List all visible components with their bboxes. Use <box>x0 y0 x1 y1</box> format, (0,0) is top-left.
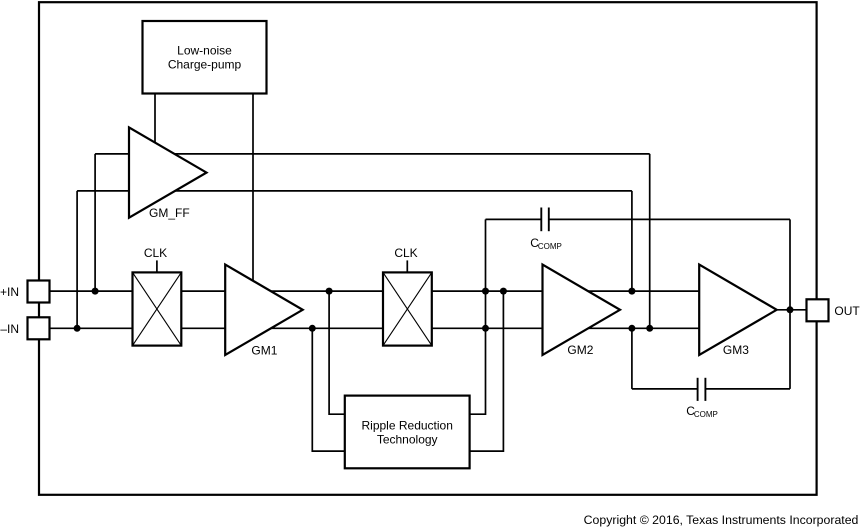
svg-text:+IN: +IN <box>0 285 19 299</box>
svg-text:GM1: GM1 <box>251 343 277 357</box>
svg-text:Ripple Reduction: Ripple Reduction <box>362 418 453 432</box>
chopper 2 box <box>383 272 432 345</box>
svg-text:Copyright © 2016, Texas Instru: Copyright © 2016, Texas Instruments Inco… <box>584 513 859 527</box>
wire: +row tap down into ripple box left upper <box>329 291 345 414</box>
node: chopper2 out + tap (Ccomp leg) <box>482 288 489 295</box>
wire: CLK stub chopper 1 <box>156 260 158 273</box>
svg-text:Low-noise: Low-noise <box>177 43 232 57</box>
svg-text:GM_FF: GM_FF <box>149 206 190 220</box>
wire: output right vertical joining both Ccomp to output node <box>789 219 791 389</box>
wire: +row tap down into ripple box right lower <box>470 291 504 451</box>
node: bottom Ccomp leg on -row <box>628 325 635 332</box>
wire: top Ccomp left leg down through rows into ripple box right upper <box>470 219 486 414</box>
op-amp GM_FF <box>129 127 207 217</box>
block: Ripple Reduction Technology <box>345 396 470 469</box>
node: GM_FF upper drop on -row <box>646 325 653 332</box>
node: -IN junction <box>74 325 81 332</box>
svg-text:–IN: –IN <box>0 322 19 336</box>
op-amp GM1 <box>225 265 303 356</box>
wire: bottom Ccomp line right segment <box>705 388 790 390</box>
wire: charge-pump right drop to GM1 top edge <box>252 93 254 290</box>
svg-text:CLK: CLK <box>144 246 167 260</box>
node: GM1 out + tap <box>326 288 333 295</box>
node: +IN junction <box>92 288 99 295</box>
svg-text:Charge-pump: Charge-pump <box>168 57 242 71</box>
node: ripple right lower tap <box>500 288 507 295</box>
svg-text:COMP: COMP <box>538 242 562 251</box>
wire: bottom Ccomp left leg from -row <box>631 328 633 389</box>
svg-text:COMP: COMP <box>694 410 718 419</box>
node: GM1 out - tap <box>309 325 316 332</box>
wire: right drop of GM_FF lower line down to +row <box>631 191 633 291</box>
pin +IN <box>28 281 50 303</box>
svg-text:GM2: GM2 <box>567 343 593 357</box>
wire: vertical from -IN node up to GM_FF lower line <box>76 191 78 328</box>
wire: charge-pump left drop to GM_FF top edge <box>154 93 156 150</box>
wire: -row tap down into ripple box left lower <box>312 328 345 451</box>
node: chopper2 out - tap (Ccomp leg) <box>482 325 489 332</box>
wire: -IN row <box>50 327 700 329</box>
wire: top Ccomp line right segment <box>549 218 790 220</box>
node: output junction <box>787 306 794 313</box>
svg-text:GM3: GM3 <box>723 343 749 357</box>
wire: +IN row <box>50 290 700 292</box>
wire: GM_FF lower line <box>77 190 632 192</box>
svg-text:CLK: CLK <box>394 246 417 260</box>
wire: GM3 output to OUT pin <box>777 309 807 311</box>
node: GM_FF lower drop on +row <box>628 288 635 295</box>
wire: bottom Ccomp line left segment <box>632 388 698 390</box>
svg-text:OUT: OUT <box>834 304 860 318</box>
pin OUT <box>807 299 829 321</box>
capacitor C_COMP bottom plates <box>697 378 699 401</box>
chopper 1 box <box>133 272 182 345</box>
capacitor C_COMP top plates <box>540 208 542 232</box>
svg-text:Technology: Technology <box>377 433 438 447</box>
wire: vertical from +IN node up to GM_FF upper line <box>94 154 96 291</box>
op-amp GM3 <box>699 265 777 356</box>
pin -IN <box>28 317 50 339</box>
wire: CLK stub chopper 2 <box>406 260 408 273</box>
wire: top Ccomp line left segment <box>486 218 542 220</box>
block: Low-noise Charge-pump <box>143 21 267 94</box>
op-amp GM2 <box>543 265 621 356</box>
wire: GM_FF upper line (+IN column to right drop) <box>95 153 650 155</box>
wire: right drop of GM_FF upper line down to -row <box>649 154 651 328</box>
